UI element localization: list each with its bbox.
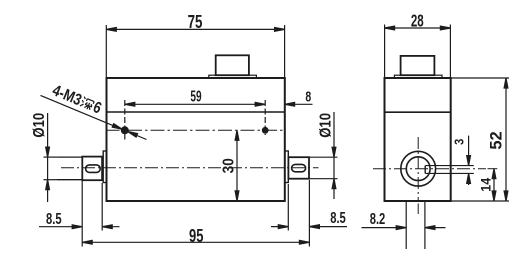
- svg-text:6: 6: [90, 99, 103, 118]
- svg-text:14: 14: [478, 177, 494, 192]
- svg-text:Ø10: Ø10: [31, 113, 48, 138]
- svg-text:95: 95: [189, 227, 203, 247]
- svg-text:Ø10: Ø10: [317, 113, 334, 138]
- svg-text:8: 8: [305, 87, 311, 104]
- svg-text:8.2: 8.2: [370, 209, 386, 228]
- svg-text:59: 59: [190, 87, 201, 105]
- svg-text:30: 30: [221, 158, 238, 173]
- svg-text:8.5: 8.5: [330, 208, 346, 227]
- svg-text:75: 75: [188, 12, 203, 33]
- svg-text:28: 28: [411, 12, 424, 31]
- svg-text:8.5: 8.5: [46, 209, 62, 228]
- svg-text:4-M3: 4-M3: [50, 82, 84, 110]
- svg-text:3: 3: [452, 138, 467, 144]
- svg-text:52: 52: [488, 131, 506, 149]
